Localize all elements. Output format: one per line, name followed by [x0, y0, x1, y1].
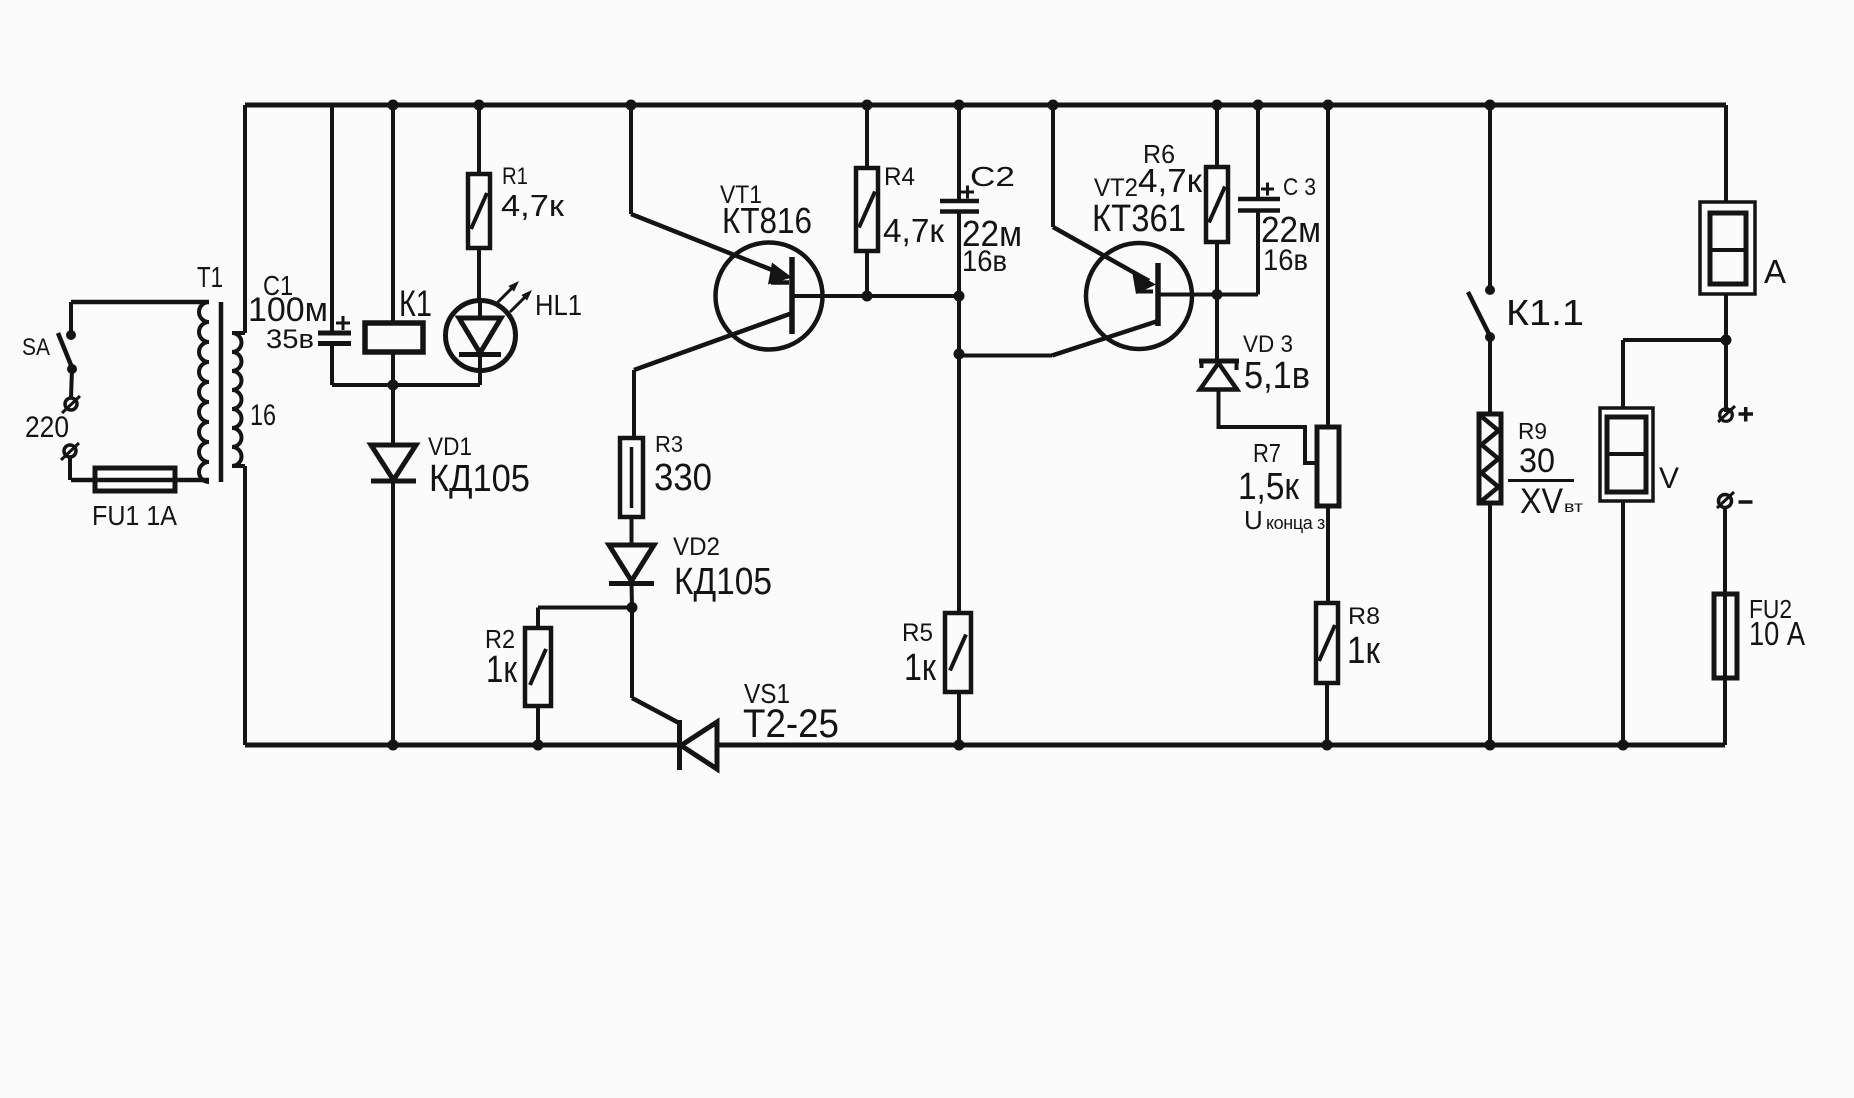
svg-text:VD1: VD1: [428, 433, 472, 461]
svg-text:1,5к: 1,5к: [1238, 466, 1299, 508]
svg-text:К1.1: К1.1: [1506, 292, 1584, 333]
svg-text:вт: вт: [1564, 499, 1584, 516]
svg-text:SA: SA: [22, 334, 50, 361]
svg-text:A: A: [1764, 253, 1786, 290]
svg-text:R1: R1: [502, 163, 528, 190]
svg-text:16: 16: [250, 399, 276, 432]
svg-text:R4: R4: [884, 163, 915, 191]
svg-text:330: 330: [654, 457, 712, 499]
svg-text:конца з: конца з: [1266, 513, 1325, 533]
svg-text:C 3: C 3: [1283, 174, 1316, 201]
svg-text:R8: R8: [1348, 603, 1380, 630]
svg-text:КТ816: КТ816: [722, 200, 812, 241]
svg-text:4,7к: 4,7к: [501, 188, 564, 223]
svg-text:V: V: [1659, 462, 1679, 495]
svg-text:КД105: КД105: [674, 561, 772, 603]
svg-text:1к: 1к: [1347, 630, 1380, 672]
svg-text:35в: 35в: [266, 324, 314, 354]
svg-text:КТ361: КТ361: [1092, 198, 1186, 240]
svg-text:4,7к: 4,7к: [1138, 162, 1203, 199]
svg-text:XV: XV: [1520, 482, 1564, 521]
svg-text:16в: 16в: [962, 245, 1007, 278]
svg-text:30: 30: [1519, 442, 1555, 480]
svg-text:C2: C2: [970, 161, 1015, 192]
svg-text:FU1 1A: FU1 1A: [92, 500, 177, 531]
svg-text:1к: 1к: [486, 649, 517, 691]
svg-text:К1: К1: [399, 283, 432, 324]
svg-text:VD2: VD2: [673, 533, 720, 561]
svg-text:КД105: КД105: [429, 458, 530, 500]
svg-text:1к: 1к: [904, 647, 936, 689]
svg-text:T1: T1: [197, 262, 223, 294]
svg-text:R9: R9: [1518, 418, 1547, 444]
svg-text:R5: R5: [902, 619, 933, 647]
svg-text:R7: R7: [1253, 438, 1281, 468]
svg-text:Т2-25: Т2-25: [743, 702, 839, 746]
svg-text:R3: R3: [655, 431, 683, 457]
svg-text:16в: 16в: [1263, 244, 1308, 277]
svg-text:HL1: HL1: [535, 290, 582, 322]
svg-text:5,1в: 5,1в: [1244, 355, 1310, 397]
svg-text:4,7к: 4,7к: [883, 212, 945, 249]
svg-text:VD 3: VD 3: [1243, 331, 1293, 358]
svg-text:220: 220: [25, 411, 69, 444]
svg-text:U: U: [1244, 505, 1263, 535]
svg-text:10 А: 10 А: [1749, 615, 1805, 652]
